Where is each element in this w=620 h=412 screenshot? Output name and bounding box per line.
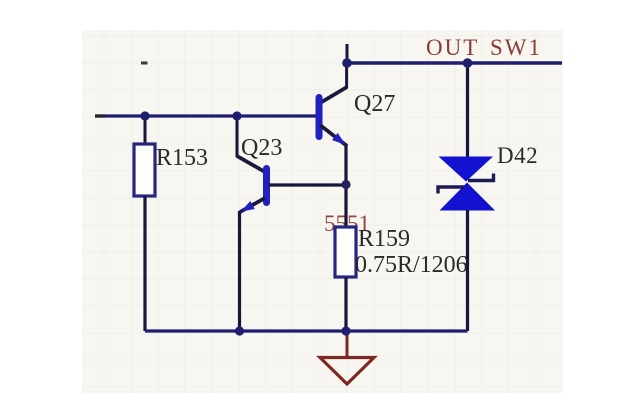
Q23 collector stroke [237, 156, 265, 172]
wire: stub above OUT_SW1 junction [346, 44, 349, 63]
wire: Q23 emitter vertical [238, 211, 241, 331]
node: junction Q27 collector / OUT_SW1 [342, 58, 352, 68]
svg-text:OUT: OUT [426, 35, 479, 60]
wire: OUT_SW1 net horizontal [347, 61, 562, 64]
diode D42 (bidirectional TVS) [438, 63, 495, 331]
wire: dark tip at left end of top rail [95, 114, 105, 117]
node: junction Q23 emitter / bottom rail [235, 326, 244, 335]
resistor R159 [335, 185, 356, 331]
wire: D42 top lead [466, 63, 469, 158]
wire: clipped stub artifact above R153 [141, 62, 148, 65]
svg-text:R153: R153 [156, 145, 208, 171]
svg-text:R159: R159 [358, 226, 410, 252]
wire: Q23 base to R159 top node [269, 183, 346, 186]
wire: top control rail [95, 114, 316, 117]
node: junction R153 / top rail [140, 111, 149, 120]
node: junction Q23 collector / top rail [232, 111, 241, 120]
node: junction D42 / OUT_SW1 [463, 58, 473, 68]
node: junction Q23 base / Q27 emitter / R159 [341, 180, 350, 189]
svg-text:Q27: Q27 [354, 91, 395, 117]
Q23 emitter stroke [240, 198, 265, 212]
D42 cathode bar left [438, 187, 464, 194]
Q23 base bar [263, 169, 270, 203]
wire: bottom ground rail [145, 329, 468, 332]
Q27 collector stroke [320, 87, 347, 103]
wire: Q23 collector vertical [236, 116, 239, 157]
wire: D42 bottom lead [466, 210, 469, 331]
Q27 base bar [316, 98, 323, 137]
D42 cathode bar right [468, 174, 494, 181]
resistor R153 [134, 116, 155, 331]
transistor Q27 [319, 63, 347, 186]
wire: Q27 emitter vertical down to base-sense node [344, 145, 347, 186]
D42 top triangle [439, 157, 494, 182]
Q27 emitter stroke [320, 125, 347, 146]
Q27 emitter arrow [332, 133, 346, 145]
ground symbol [320, 331, 374, 384]
svg-text:Q23: Q23 [241, 135, 282, 161]
Q23 emitter arrow [241, 201, 255, 212]
transistor Q23 [237, 116, 267, 331]
svg-text:D42: D42 [497, 143, 538, 168]
node: junction R159 / ground / bottom rail [341, 326, 350, 335]
wire: Q27 collector vertical [345, 63, 348, 88]
svg-text:0.75R/1206: 0.75R/1206 [355, 252, 468, 278]
D42 bottom triangle [440, 183, 496, 211]
svg-text:SW1: SW1 [490, 35, 542, 60]
